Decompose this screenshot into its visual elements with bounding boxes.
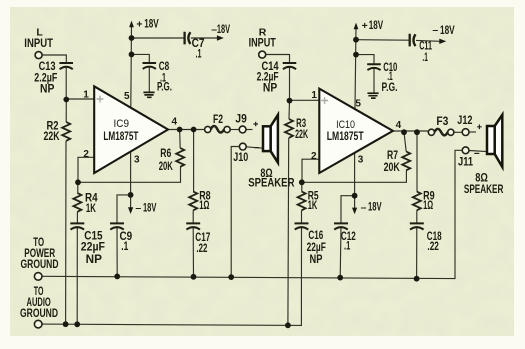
- svg-text:1K: 1K: [86, 203, 96, 215]
- svg-text:NP: NP: [86, 254, 103, 266]
- svg-text:P.G.: P.G.: [382, 82, 398, 94]
- svg-text:18V: 18V: [369, 20, 384, 32]
- svg-text:C11: C11: [419, 41, 432, 53]
- svg-text:3: 3: [134, 155, 140, 166]
- svg-text:2: 2: [311, 151, 317, 162]
- svg-text:22µF: 22µF: [81, 242, 105, 254]
- svg-text:NP: NP: [310, 254, 323, 266]
- svg-text:.22: .22: [196, 243, 207, 255]
- svg-text:20K: 20K: [384, 162, 401, 174]
- svg-text:–: –: [135, 202, 141, 214]
- svg-text:.1: .1: [196, 48, 202, 60]
- svg-text:1: 1: [83, 90, 89, 101]
- svg-text:NP: NP: [40, 84, 55, 96]
- svg-text:J10: J10: [233, 152, 248, 164]
- svg-text:2: 2: [83, 149, 89, 160]
- svg-text:R7: R7: [387, 150, 398, 162]
- svg-text:4: 4: [172, 116, 178, 127]
- svg-text:18V: 18V: [368, 202, 382, 214]
- svg-text:18V: 18V: [217, 24, 230, 36]
- svg-text:.1: .1: [344, 240, 351, 252]
- svg-text:–: –: [361, 201, 367, 213]
- svg-text:C16: C16: [308, 230, 323, 242]
- svg-text:P.G.: P.G.: [157, 82, 172, 94]
- svg-text:NP: NP: [263, 83, 278, 95]
- svg-text:J11: J11: [458, 156, 474, 168]
- svg-text:F3: F3: [436, 116, 448, 128]
- svg-text:LM1875T: LM1875T: [327, 129, 364, 143]
- svg-text:22K: 22K: [44, 131, 61, 143]
- svg-text:+: +: [362, 20, 368, 32]
- svg-text:18V: 18V: [440, 25, 455, 37]
- svg-text:.22: .22: [427, 241, 439, 253]
- svg-text:1Ω: 1Ω: [199, 200, 209, 212]
- svg-text:3: 3: [358, 155, 364, 166]
- svg-text:C13: C13: [39, 61, 56, 73]
- svg-text:SPEAKER: SPEAKER: [248, 178, 295, 190]
- svg-text:LM1875T: LM1875T: [103, 129, 138, 143]
- svg-text:J12: J12: [457, 115, 472, 127]
- svg-text:SPEAKER: SPEAKER: [464, 184, 504, 196]
- svg-text:.1: .1: [387, 71, 393, 83]
- svg-text:GROUND: GROUND: [20, 308, 58, 320]
- svg-text:+: +: [136, 19, 142, 31]
- svg-text:J9: J9: [235, 114, 246, 126]
- svg-text:GROUND: GROUND: [21, 259, 59, 271]
- svg-text:1: 1: [311, 90, 317, 101]
- svg-text:4: 4: [396, 120, 402, 131]
- svg-text:INPUT: INPUT: [249, 37, 276, 49]
- svg-text:.1: .1: [422, 52, 428, 64]
- svg-text:–: –: [432, 24, 438, 36]
- svg-text:20K: 20K: [159, 161, 174, 173]
- svg-text:18V: 18V: [144, 19, 159, 31]
- svg-text:1Ω: 1Ω: [423, 200, 433, 212]
- svg-text:18V: 18V: [143, 202, 157, 214]
- svg-text:1K: 1K: [308, 200, 318, 212]
- svg-text:R6: R6: [160, 148, 171, 160]
- svg-text:F2: F2: [213, 114, 223, 126]
- svg-text:2.2µF: 2.2µF: [34, 73, 57, 85]
- svg-text:22µF: 22µF: [307, 242, 326, 254]
- svg-text:INPUT: INPUT: [24, 38, 53, 50]
- svg-text:8Ω: 8Ω: [475, 173, 488, 185]
- svg-text:.1: .1: [121, 241, 128, 253]
- svg-text:5: 5: [355, 98, 361, 109]
- svg-text:C8: C8: [159, 61, 170, 73]
- svg-text:L: L: [36, 27, 43, 39]
- svg-text:22K: 22K: [295, 129, 308, 141]
- svg-text:5: 5: [124, 91, 130, 102]
